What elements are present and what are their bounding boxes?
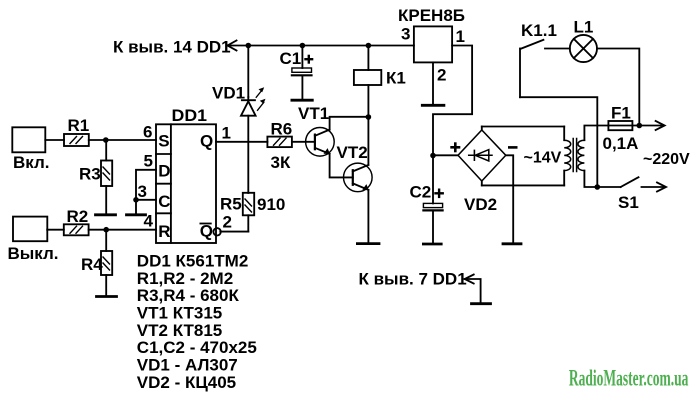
label minus bridge: [508, 146, 518, 149]
svg-text:910: 910: [257, 195, 285, 214]
wire to pin 7 DD1 arrow: [465, 279, 481, 302]
transformer T1 primary: [578, 140, 585, 170]
transistor VT1: [306, 117, 369, 178]
ground C1: [292, 99, 312, 102]
svg-text:F1: F1: [611, 104, 631, 123]
svg-text:2: 2: [223, 213, 232, 232]
svg-text:С2: С2: [410, 183, 432, 202]
svg-text:R2: R2: [67, 207, 89, 226]
wire R2 to pin R: [89, 229, 156, 231]
transistor VT2: [344, 117, 373, 243]
junction R2/R4: [103, 227, 109, 233]
transformer T1 secondary: [564, 127, 571, 186]
svg-text:3: 3: [138, 182, 147, 201]
svg-text:R3,R4 - 680К: R3,R4 - 680К: [137, 286, 240, 305]
svg-text:3: 3: [401, 25, 410, 44]
wire R6 to VT1 base: [292, 141, 315, 143]
resistor R3: [101, 140, 112, 214]
svg-text:5: 5: [144, 152, 153, 171]
capacitor C2: [423, 156, 442, 243]
ground VT2: [357, 242, 379, 245]
wire F1 out arrow: [639, 125, 663, 127]
svg-text:Вкл.: Вкл.: [13, 153, 50, 172]
ground R3: [96, 213, 116, 216]
junction R1/R3: [103, 137, 109, 143]
wire primary bottom to S1: [584, 171, 620, 187]
wire primary top to fuse: [584, 126, 608, 141]
svg-text:4: 4: [144, 212, 154, 231]
resistor R5: [243, 193, 254, 232]
wire L1 to F1 node: [597, 49, 639, 126]
relay K1: [354, 46, 381, 118]
wire VD1 branch from rail: [247, 46, 249, 98]
ground R4: [97, 295, 117, 298]
ground VD2: [503, 242, 521, 245]
ground KREN8B: [422, 104, 444, 107]
junction L1/F1 output: [637, 123, 643, 129]
svg-text:6: 6: [143, 123, 152, 142]
svg-text:~220V: ~220V: [643, 151, 690, 168]
svg-text:D: D: [158, 162, 170, 181]
junction K1/VT1 collector: [366, 114, 372, 120]
svg-text:VT2: VT2: [337, 143, 368, 162]
input box Vykl: [13, 217, 47, 242]
svg-text:0,1A: 0,1A: [603, 134, 639, 153]
svg-text:2: 2: [437, 66, 446, 85]
regulator DA1 KREN8B: [414, 26, 452, 62]
junction C2/bridge plus: [430, 153, 436, 159]
svg-text:С1: С1: [280, 49, 302, 68]
wire C2 node to bridge: [433, 154, 458, 156]
svg-text:VT2 КТ815: VT2 КТ815: [137, 321, 222, 340]
svg-text:1: 1: [456, 27, 465, 46]
ground C2: [423, 243, 441, 246]
ground D/C loop: [127, 213, 146, 216]
transformer core: [572, 139, 574, 172]
switch K1.1: [519, 49, 521, 98]
wire VD1 to R5: [247, 116, 249, 193]
svg-text:L1: L1: [574, 18, 594, 37]
svg-text:VD2: VD2: [464, 195, 497, 214]
svg-text:VD2 - КЦ405: VD2 - КЦ405: [137, 373, 236, 392]
pin bubble Q-bar pin2: [213, 228, 220, 235]
wire Q out to R6: [216, 141, 267, 143]
svg-text:Q: Q: [200, 132, 213, 151]
capacitor C1: [292, 46, 312, 100]
svg-text:К выв. 7 DD1: К выв. 7 DD1: [359, 270, 467, 289]
lamp L1: [570, 35, 597, 62]
diode bridge VD2: [458, 127, 506, 186]
IC DD1 body: [156, 124, 216, 243]
junction pin C loop: [133, 197, 139, 203]
junction K1.1 branch/S1 wire: [595, 184, 601, 190]
wire bridge AC top rail: [482, 126, 564, 128]
wire Vykl to R2: [47, 229, 64, 231]
svg-text:R6: R6: [271, 119, 293, 138]
svg-text:DD1: DD1: [172, 106, 208, 125]
svg-text:VD1: VD1: [212, 84, 245, 103]
input box Vkl: [12, 127, 45, 152]
svg-text:S1: S1: [618, 193, 639, 212]
switch S1: [621, 177, 639, 187]
svg-text:Выкл.: Выкл.: [8, 244, 59, 263]
resistor R2: [64, 224, 89, 235]
svg-text:R3: R3: [79, 165, 101, 184]
svg-text:КРЕН8Б: КРЕН8Б: [398, 6, 465, 25]
svg-text:C: C: [158, 192, 170, 211]
svg-text:RadioMaster.com.ua: RadioMaster.com.ua: [569, 366, 689, 391]
wire Vkl to R1: [45, 139, 64, 141]
svg-text:К1: К1: [386, 69, 406, 88]
ground pin7: [472, 302, 491, 305]
wire pin C to loop: [136, 199, 156, 201]
svg-text:1: 1: [222, 123, 231, 142]
junction VD1/top rail: [246, 43, 252, 49]
svg-text:VT1 КТ315: VT1 КТ315: [137, 304, 222, 323]
svg-text:R1,R2 - 2М2: R1,R2 - 2М2: [137, 269, 233, 288]
wire K1.1 branch down to S1 wire: [520, 97, 597, 187]
svg-text:VT1: VT1: [298, 104, 329, 123]
wire top rail: [228, 45, 414, 47]
wire KREN8B pin2 to ground: [432, 62, 434, 104]
wire Q-bar to R5: [220, 231, 248, 233]
resistor R6: [267, 137, 292, 148]
junction C1/top rail: [300, 43, 306, 49]
wire bridge AC bottom rail: [482, 184, 564, 186]
resistor R4: [101, 230, 112, 296]
fuse F1: [608, 121, 639, 130]
svg-text:R1: R1: [68, 116, 90, 135]
svg-text:DD1 К561ТМ2: DD1 К561ТМ2: [137, 252, 248, 271]
svg-text:С1,С2 - 470х25: С1,С2 - 470х25: [137, 338, 257, 357]
svg-text:VD1 - АЛ307: VD1 - АЛ307: [137, 356, 238, 375]
svg-text:K1.1: K1.1: [521, 21, 557, 40]
resistor R1: [64, 134, 89, 146]
junction K1/top rail: [366, 43, 372, 49]
wire KREN8B pin1 to bridge +: [433, 46, 472, 156]
wire R1 to pin S: [89, 139, 156, 141]
svg-text:R: R: [158, 222, 170, 241]
label plus bridge: [450, 142, 460, 152]
svg-text:R5: R5: [220, 195, 242, 214]
node top-rail arrow to pin 14 DD1: [228, 41, 237, 51]
svg-text:~14V: ~14V: [524, 150, 562, 167]
wire bridge minus to ground: [506, 155, 513, 242]
wire S1 out arrow: [642, 186, 666, 188]
svg-text:S: S: [158, 132, 169, 151]
svg-text:R4: R4: [81, 255, 103, 274]
svg-text:3К: 3К: [271, 153, 291, 172]
wire pin D loop: [136, 170, 156, 214]
wire LED cathode stub: [247, 97, 249, 101]
diode VD1 (LED): [241, 87, 266, 115]
svg-text:К выв. 14 DD1: К выв. 14 DD1: [113, 38, 231, 57]
